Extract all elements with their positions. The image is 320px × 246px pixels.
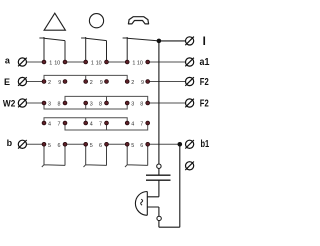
svg-text:10: 10 [54,60,60,66]
svg-text:6: 6 [58,143,61,149]
svg-text:3: 3 [48,102,51,108]
svg-text:7: 7 [140,122,143,128]
svg-text:b: b [7,138,13,148]
svg-text:a1: a1 [200,57,210,68]
svg-text:3: 3 [90,102,93,108]
svg-text:6: 6 [140,143,143,149]
svg-text:9: 9 [100,80,103,86]
svg-text:5: 5 [48,143,51,149]
svg-text:5: 5 [131,143,134,149]
svg-text:b1: b1 [201,139,210,150]
svg-text:9: 9 [58,80,61,86]
svg-text:6: 6 [99,143,102,149]
svg-text:4: 4 [48,122,51,128]
svg-text:5: 5 [90,143,93,149]
svg-text:1: 1 [132,60,135,66]
svg-text:W2: W2 [3,98,15,108]
svg-text:8: 8 [99,102,102,108]
svg-text:I: I [203,36,206,48]
svg-text:4: 4 [131,122,134,128]
svg-text:8: 8 [140,102,143,108]
svg-text:2: 2 [48,80,51,86]
svg-text:1: 1 [49,60,52,66]
svg-text:10: 10 [137,60,143,66]
svg-text:F2: F2 [200,77,209,88]
svg-text:7: 7 [99,122,102,128]
svg-text:1: 1 [91,60,94,66]
svg-text:E: E [4,77,10,87]
svg-text:7: 7 [58,122,61,128]
svg-text:8: 8 [58,102,61,108]
svg-text:F2: F2 [200,98,209,109]
svg-text:10: 10 [96,60,102,66]
svg-text:3: 3 [131,102,134,108]
svg-text:2: 2 [131,80,134,86]
svg-text:2: 2 [90,80,93,86]
svg-text:4: 4 [90,122,93,128]
svg-text:9: 9 [141,80,144,86]
